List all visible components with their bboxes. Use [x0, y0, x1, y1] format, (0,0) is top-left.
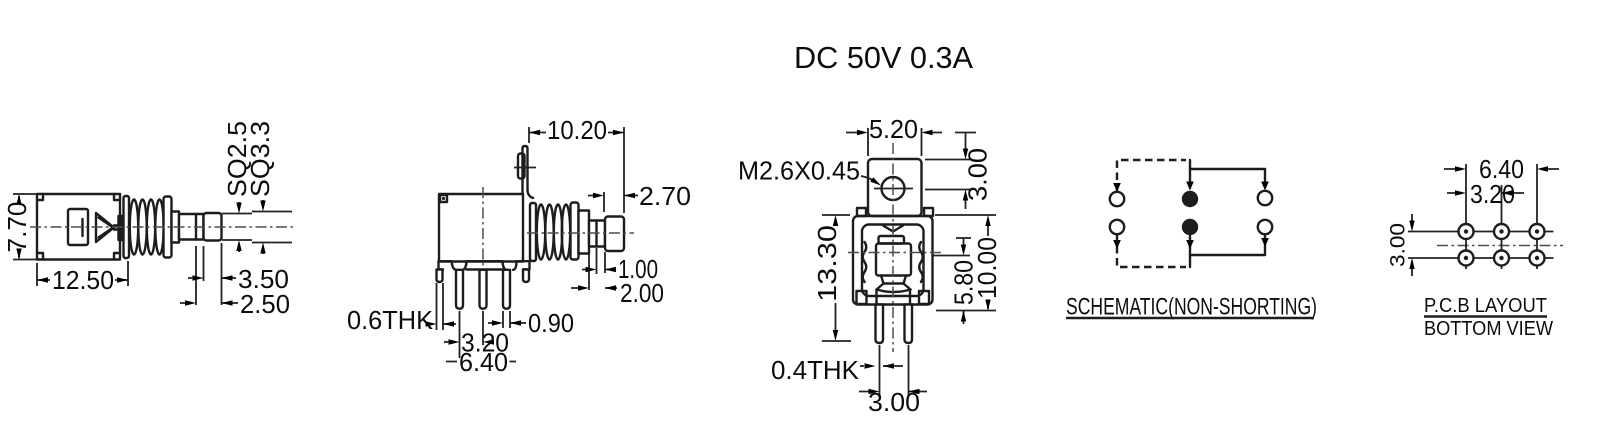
svg-text:DC 50V 0.3A: DC 50V 0.3A: [794, 40, 973, 75]
terminal 1 contact: [1110, 192, 1124, 206]
svg-text:0.6THK: 0.6THK: [347, 305, 434, 335]
solid throw link bottom: [1190, 234, 1265, 255]
centerline view A axis: [30, 226, 296, 228]
dim 10.00 extension line: [935, 215, 996, 311]
bellows coil 3: [147, 200, 155, 255]
dim 13.30 extension lines: [822, 215, 851, 341]
pole link bottom: [1189, 236, 1191, 267]
top tab right: [924, 208, 933, 216]
pole contact top: [1182, 191, 1198, 207]
dim 5.80 line and arrows: [956, 238, 971, 324]
centerline view B shaft axis: [527, 232, 634, 234]
cone tip link: [114, 226, 121, 230]
threaded bushing plate: [868, 159, 922, 216]
arrow pole bottom: [1186, 240, 1194, 249]
plunger foot: [877, 284, 911, 290]
inner window step: [81, 219, 83, 236]
pad hole 3: [1530, 224, 1545, 239]
switch body (front view): [439, 194, 523, 262]
dim 3.00 arrows (pcb): [1411, 214, 1413, 276]
svg-text:7.70: 7.70: [2, 202, 32, 253]
dim 0.6THK line and arrows: [428, 323, 456, 325]
body outer shell: [853, 216, 933, 305]
stem sides: [877, 291, 911, 305]
svg-text:3.20: 3.20: [1470, 179, 1515, 209]
pad hole 4: [1459, 251, 1474, 266]
dim 5.20 line and arrows: [846, 132, 942, 134]
pin extension lines: [880, 345, 909, 396]
svg-text:0.4THK: 0.4THK: [771, 355, 860, 385]
svg-text:3.00: 3.00: [1387, 223, 1410, 267]
inner frame side wave left: [863, 242, 867, 282]
terminal pin 3: [503, 270, 510, 309]
terminal pin right (end view): [905, 305, 913, 344]
svg-text:2.70: 2.70: [639, 181, 691, 211]
dim 10.20 line and arrows: [529, 132, 624, 134]
base shoulder right: [513, 261, 530, 270]
shaft end cap: [204, 213, 222, 241]
bellows coil 3 (front): [554, 205, 562, 260]
shaft neck step: [195, 214, 197, 240]
bottom side block left: [857, 291, 867, 304]
dim 3.00 top-right line and arrows: [955, 133, 976, 210]
svg-text:3.00: 3.00: [868, 387, 920, 417]
leader arrowhead: [870, 177, 882, 188]
pcb caption underline: [1424, 315, 1547, 317]
bellows coil 2: [138, 200, 146, 255]
shaft end cap (front): [605, 217, 624, 252]
corner notch top-left: [37, 194, 43, 200]
pad hole 3 center: [1535, 229, 1539, 233]
dim 10.00 line and arrows: [987, 226, 989, 309]
dim 12.50 line and arrows: [37, 279, 128, 281]
dim 10.20 extension lines: [529, 127, 624, 213]
pad hole 1: [1459, 224, 1474, 239]
pole contact bottom: [1182, 219, 1198, 235]
dim 13.30 line and arrows: [835, 223, 837, 330]
dim 5.80 extension line: [933, 255, 971, 257]
shaft collar: [172, 212, 180, 243]
pad hole 1 center: [1464, 229, 1468, 233]
thread hole M2.6: [882, 177, 905, 200]
dim 1.00 extension lines: [589, 248, 605, 290]
bellows coil 1: [130, 200, 138, 255]
switch body (side view): [37, 194, 120, 260]
flange plate (front): [530, 203, 536, 261]
dim 0.90 extension lines: [503, 311, 510, 328]
SQ2.5 arrows: [238, 202, 240, 205]
bellows coil 1 (front): [537, 205, 545, 260]
svg-text:13.30: 13.30: [812, 225, 842, 302]
svg-text:2.50: 2.50: [240, 289, 290, 319]
bellows coil 4 (front): [562, 205, 570, 260]
dim 3.20/6.40 extension lines: [460, 311, 484, 358]
bellows coil 2 (front): [545, 205, 553, 260]
pad hole 6: [1530, 251, 1545, 266]
corner notch bottom-right: [114, 253, 120, 260]
terminal 4 contact: [1110, 220, 1124, 234]
bottom side block right: [919, 291, 929, 304]
corner dot: [442, 197, 445, 200]
shaft neck (front): [589, 221, 605, 247]
dim 0.4THK line and arrows: [860, 365, 903, 367]
inner frame side wave right: [919, 242, 923, 282]
plunger cap: [879, 236, 905, 244]
centerline view B vertical: [482, 187, 484, 266]
pad column line 1: [1465, 164, 1467, 269]
dashed throw link bottom: [1117, 234, 1186, 267]
dim 0.6THK extension lines: [437, 283, 444, 330]
centerline view C vertical: [892, 143, 894, 352]
corner notch bottom-left: [37, 253, 43, 260]
svg-text:12.50: 12.50: [52, 265, 114, 295]
svg-text:M2.6X0.45: M2.6X0.45: [738, 156, 860, 186]
svg-text:P.C.B LAYOUT: P.C.B LAYOUT: [1424, 295, 1547, 317]
terminal pin 1: [456, 270, 463, 309]
bellows coil 4: [155, 200, 163, 255]
corner notch top-right: [114, 194, 120, 200]
washer (front): [571, 203, 579, 260]
inner frame: [862, 225, 924, 297]
pad hole 5: [1494, 251, 1509, 266]
SQ2.5 extension lines: [222, 214, 252, 241]
right tab: [523, 270, 529, 283]
plunger body: [876, 244, 911, 276]
svg-text:10.20: 10.20: [547, 115, 607, 145]
dim 5.20 extension lines: [868, 128, 922, 156]
dim 7.70 extension lines: [13, 194, 36, 260]
dim 2.70 line and arrows: [588, 195, 638, 197]
dim 3.20 line and arrows (pcb): [1447, 192, 1524, 194]
pad hole 2: [1494, 224, 1509, 239]
pad row line bottom: [1408, 257, 1554, 259]
svg-text:6.40: 6.40: [459, 347, 508, 377]
spring cone inner lines: [99, 218, 114, 238]
inner frame top mark: [883, 226, 903, 232]
arrow terminal 1: [1113, 183, 1121, 192]
base shoulder middle outline: [463, 261, 507, 270]
arrow pole top: [1186, 182, 1194, 191]
dim 2.70 extension lines: [603, 192, 605, 212]
dim 2.50 line and arrows: [180, 302, 238, 304]
bracket threaded boss: [518, 154, 525, 179]
schematic caption underline: [1066, 317, 1314, 319]
SQ3.3 extension lines: [252, 212, 292, 243]
pad column line 2: [1501, 185, 1503, 269]
pad hole 2 center: [1499, 229, 1503, 233]
shaft neck step (front): [595, 221, 597, 247]
dim 0.90 line and arrows: [488, 322, 526, 324]
base left foot line: [439, 268, 444, 270]
arrow terminal 4: [1113, 240, 1121, 249]
svg-text:SCHEMATIC(NON-SHORTING): SCHEMATIC(NON-SHORTING): [1066, 294, 1317, 321]
terminal pin left (end view): [876, 305, 884, 344]
solid throw link top: [1190, 169, 1265, 181]
svg-text:2.00: 2.00: [620, 278, 664, 308]
dim 6.40 line and arrows: [446, 361, 516, 363]
svg-text:5.80: 5.80: [949, 260, 979, 305]
svg-text:0.90: 0.90: [528, 308, 574, 338]
dim 3.50 line and arrows: [188, 277, 236, 279]
inner window: [68, 209, 88, 245]
terminal 3 contact: [1258, 191, 1272, 205]
dim 3.50/2.50 extension lines: [196, 243, 222, 305]
dim 6.40 line and arrows (pcb): [1444, 168, 1559, 170]
arrow terminal 6: [1261, 238, 1269, 247]
foot bottom arc: [877, 290, 911, 293]
pole link top: [1189, 160, 1191, 181]
dim 3.20 line and arrows: [444, 341, 449, 343]
left tab: [437, 270, 443, 283]
shaft collar (front): [579, 211, 590, 254]
svg-text:5.20: 5.20: [869, 114, 918, 144]
pad column line 3: [1536, 164, 1538, 269]
pad hole 4 center: [1464, 256, 1468, 260]
corner square mark: [440, 195, 447, 202]
dim 3.00 top-right extension lines: [925, 160, 971, 190]
terminal 6 contact: [1258, 220, 1272, 234]
plunger waist: [881, 276, 906, 284]
svg-text:3.00: 3.00: [963, 148, 993, 201]
pad row line top: [1408, 231, 1554, 233]
dim 1.00 line and arrows: [582, 269, 616, 271]
leader M2.6X0.45: [861, 176, 875, 182]
pcb centerline: [1437, 245, 1563, 247]
centerline view C horizontal: [848, 252, 941, 254]
pad hole 5 center: [1499, 256, 1503, 260]
svg-text:BOTTOM VIEW: BOTTOM VIEW: [1424, 318, 1553, 340]
dim 7.70 line and arrows: [18, 196, 20, 258]
end plate inside body: [119, 216, 123, 240]
spring cone (outer triangle): [96, 213, 114, 242]
terminal pin 2: [480, 270, 487, 309]
base shoulder left: [439, 261, 457, 270]
SQ3.3 arrows: [262, 200, 264, 203]
arrow terminal 3: [1261, 182, 1269, 191]
thread hole crosshair: [874, 188, 913, 190]
pad hole 6 center: [1535, 256, 1539, 260]
svg-text:SQ3.3: SQ3.3: [245, 121, 275, 197]
washer: [164, 197, 172, 258]
dim 2.00 line and arrows: [571, 287, 617, 289]
base shoulder middle: [463, 261, 507, 270]
shaft neck: [179, 214, 204, 240]
mounting bracket plate: [523, 146, 534, 198]
dim 12.50 extension lines: [37, 261, 128, 286]
mounting flange plate: [124, 196, 130, 258]
dashed throw link top: [1117, 160, 1186, 192]
dim 3.00 bottom line and arrows: [859, 391, 927, 393]
boss cross tick: [514, 167, 536, 169]
top tab left: [857, 208, 866, 216]
